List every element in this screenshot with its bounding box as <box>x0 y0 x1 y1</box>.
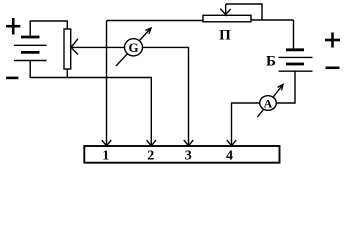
svg-text:A: A <box>264 96 273 110</box>
svg-text:Π: Π <box>219 28 231 44</box>
svg-text:3: 3 <box>185 148 192 163</box>
svg-text:Б: Б <box>266 54 276 70</box>
svg-text:4: 4 <box>226 148 233 163</box>
svg-text:G: G <box>128 40 138 55</box>
svg-text:1: 1 <box>102 148 109 163</box>
svg-text:2: 2 <box>147 148 154 163</box>
